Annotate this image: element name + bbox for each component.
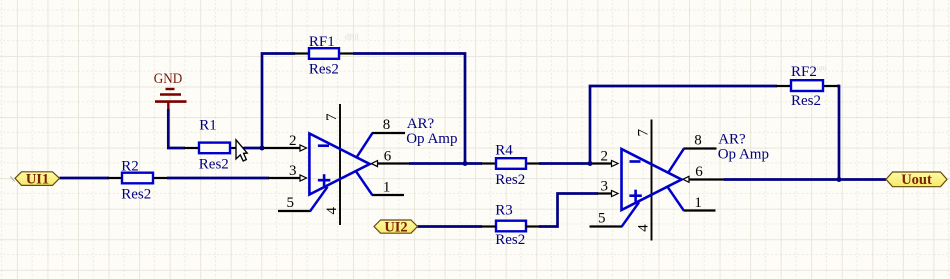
wire RF1 right vertical down to node B: [353, 54, 465, 165]
svg-text:Uout: Uout: [901, 172, 932, 188]
svg-text:um: um: [817, 63, 827, 72]
pin 1: [372, 194, 404, 196]
wire RF2 lead right: [823, 85, 839, 87]
pin 3 marker: [612, 191, 619, 197]
wire R2 lead left: [107, 177, 122, 179]
wire RF1 lead right: [339, 52, 355, 54]
pin 6 marker: [683, 176, 689, 182]
pin 6 marker: [371, 161, 377, 167]
svg-text:6: 6: [695, 164, 703, 180]
plus sign: [318, 179, 330, 182]
svg-text:6: 6: [384, 149, 392, 165]
op-amp U1 (AR?): [278, 104, 457, 225]
svg-text:3: 3: [289, 163, 297, 179]
wire R2 lead right to pin3: [153, 177, 169, 179]
svg-text:5: 5: [287, 195, 295, 211]
plus sign: [629, 194, 641, 197]
pin 5: [278, 210, 311, 212]
pin 6 line: [378, 162, 411, 164]
svg-text:Res2: Res2: [309, 61, 339, 77]
pin 7 / pin 4 vertical line: [651, 120, 653, 241]
port UI1: [11, 172, 60, 188]
svg-text:4: 4: [635, 224, 651, 232]
mouse cursor: [236, 140, 247, 161]
pin 7 / pin 4 vertical line: [339, 104, 341, 225]
port UI2: [374, 219, 418, 235]
pin 8 riser: [357, 133, 373, 157]
wire RF2 down to node D: [837, 86, 839, 180]
junction node B: [463, 161, 468, 166]
pin 5: [590, 225, 623, 227]
svg-text:3: 3: [601, 179, 609, 195]
svg-text:AR?: AR?: [718, 132, 746, 148]
wire GND to R1: [168, 109, 185, 148]
pin 6 line: [689, 178, 725, 180]
resistor R4: [495, 142, 526, 188]
wire op-amp2 pin 3 lead: [597, 192, 612, 194]
svg-text:7: 7: [636, 129, 652, 137]
pin 1 riser: [668, 187, 684, 211]
svg-text:1: 1: [383, 180, 391, 196]
pin 3 marker: [300, 175, 307, 181]
pin 1: [684, 209, 716, 211]
wire op-amp2 output to Uout: [724, 178, 886, 181]
pin 5 riser: [622, 202, 640, 227]
pin 8 riser: [668, 148, 684, 172]
resistor R3: [495, 202, 526, 248]
op-amp triangle body: [622, 149, 682, 210]
wire R1 lead right: [230, 147, 246, 149]
wire R3 lead right: [526, 225, 541, 227]
svg-text:Res2: Res2: [495, 172, 525, 188]
resistor R2: [121, 159, 153, 203]
wire R4 lead right: [526, 162, 541, 164]
pin 8: [372, 132, 405, 134]
pin 2 marker: [612, 161, 619, 167]
junction node C: [588, 161, 593, 166]
wire op-amp1 output: [409, 162, 482, 165]
wire UI2 to R3: [418, 225, 483, 228]
wire node C to op-amp2 pin 2: [590, 162, 612, 164]
wire R1 lead left: [184, 147, 199, 149]
resistor RF2: [791, 64, 823, 109]
svg-text:7: 7: [324, 113, 340, 121]
wire R3 lead left: [481, 225, 496, 227]
wire UI1 to R2: [60, 177, 110, 180]
svg-text:8: 8: [694, 133, 702, 149]
svg-text:AR?: AR?: [407, 116, 435, 132]
svg-text:Res2: Res2: [495, 232, 525, 248]
ground GND: [154, 71, 187, 110]
svg-text:Op Amp: Op Amp: [406, 131, 457, 147]
pin 2 marker: [300, 145, 307, 151]
svg-text:Res2: Res2: [121, 186, 151, 202]
svg-text:UI2: UI2: [384, 219, 407, 235]
wire op-amp pin 3 lead: [268, 177, 300, 179]
wire feedback2 vertical up to RF2: [590, 86, 777, 165]
junction node A: [260, 146, 265, 151]
svg-text:8: 8: [383, 117, 391, 133]
svg-text:1: 1: [694, 195, 702, 211]
wire R4 lead left: [481, 162, 496, 164]
svg-text:Op Amp: Op Amp: [718, 146, 769, 162]
resistor RF1: [309, 34, 339, 77]
svg-text:2: 2: [289, 133, 297, 149]
wire R4 to node C: [539, 162, 592, 165]
svg-text:5: 5: [598, 210, 606, 226]
svg-text:RF2: RF2: [791, 64, 817, 80]
svg-text:4: 4: [324, 207, 340, 215]
svg-text:2: 2: [601, 149, 609, 165]
wire RF1 lead left: [294, 52, 309, 54]
svg-text:UI1: UI1: [26, 172, 49, 188]
op-amp U2 (AR?): [590, 120, 769, 241]
wire feedback left vertical to RF1: [262, 54, 295, 150]
junction node D: [837, 177, 842, 182]
wire R2 to op-amp pin 3: [167, 177, 269, 180]
pin 8: [684, 147, 717, 149]
svg-text:RF1: RF1: [309, 34, 335, 50]
svg-text:R2: R2: [121, 159, 139, 175]
svg-text:R1: R1: [199, 118, 217, 134]
svg-text:GND: GND: [154, 71, 183, 87]
wire R1 to node A: [244, 147, 264, 150]
wire R3 up to op-amp2 pin 3: [539, 194, 598, 227]
pin 1 riser: [356, 171, 372, 195]
wire RF2 lead left: [776, 85, 791, 87]
port Uout: [886, 172, 947, 188]
svg-text:dBil: dBil: [345, 33, 360, 42]
minus sign: [318, 144, 329, 147]
minus sign: [630, 160, 641, 163]
pin 5 riser: [310, 187, 328, 212]
op-amp triangle body: [309, 134, 369, 195]
svg-text:R3: R3: [495, 202, 513, 218]
svg-text:R4: R4: [495, 142, 513, 158]
resistor R1: [199, 118, 230, 173]
svg-text:Res2: Res2: [199, 156, 229, 172]
svg-text:Res2: Res2: [791, 93, 821, 109]
wire node A to op-amp pin 2: [262, 147, 300, 149]
